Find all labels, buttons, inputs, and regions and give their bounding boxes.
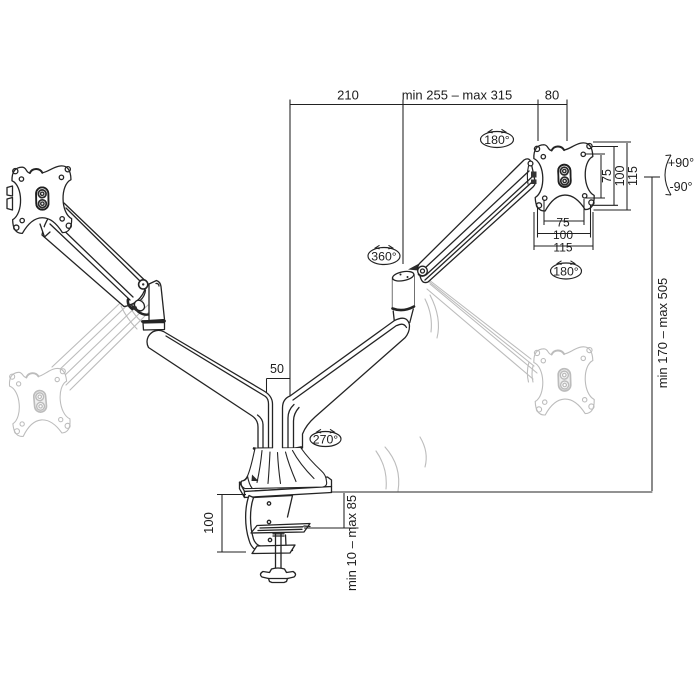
right overall dim [651,177,653,491]
ghost foot curls [420,437,426,467]
screw rod [276,533,282,569]
spring boss [132,298,146,312]
svg-text:80: 80 [545,88,559,103]
right hinge [418,266,428,276]
oval arrow ticks [488,129,505,133]
VESA vertical dims [600,155,602,198]
right hinge wedge [408,263,423,272]
svg-text:115: 115 [626,166,640,186]
svg-text:210: 210 [337,88,359,103]
lower jaw [252,545,295,554]
left plate tilt wedge [40,224,50,237]
left elbow housing [149,281,165,321]
svg-text:100: 100 [613,166,627,187]
extension line x=403 [402,100,404,264]
dim 100 left [217,495,246,553]
svg-text:min 10 – max 85: min 10 – max 85 [344,495,359,591]
ghost left arm [52,290,134,367]
svg-text:115: 115 [553,240,572,254]
left spring arm band [42,203,146,307]
dim min10-max85 [304,493,359,528]
VESA horizontal dims [544,199,584,225]
svg-text:+90°: +90° [668,156,694,170]
svg-text:50: 50 [270,362,284,376]
desk line [331,491,652,493]
foot collar [254,448,301,451]
right lower slab + tube [283,318,410,448]
ghost right plate [533,347,594,416]
svg-text:75: 75 [600,169,614,183]
svg-text:180°: 180° [484,133,510,147]
ghost right arm [424,276,531,359]
tilt arc [665,155,671,195]
svg-text:360°: 360° [371,249,397,263]
left plate side clip [7,186,13,210]
right VESA plate [533,143,594,212]
left elbow collar [143,320,165,323]
right spring arm band [418,159,536,283]
svg-text:-90°: -90° [669,180,692,194]
wing knob [260,568,295,583]
ghost right arm end bracket [527,362,529,382]
rotation ovals [310,132,582,447]
svg-text:270°: 270° [313,432,339,446]
clamp shelf (upper jaw) [251,524,310,534]
left hinge [139,280,148,289]
dim 50 [267,379,291,398]
foot dark wedge [252,475,259,482]
svg-text:min 170 – max 505: min 170 – max 505 [655,278,670,389]
right plate keyhole dark [558,164,571,187]
left elbow neck [143,323,165,331]
left VESA plate [12,166,72,234]
svg-text:100: 100 [201,512,216,534]
svg-text:min 255 – max 315: min 255 – max 315 [402,88,513,103]
left lower slab + tube [147,330,272,448]
svg-text:180°: 180° [553,264,579,278]
dark cap arcs on band [128,300,133,310]
right plate hinge details [527,166,528,184]
top dimension line [290,104,567,106]
left plate keyhole dark [36,187,49,210]
base slab [240,477,332,492]
ghost left plate [8,368,71,437]
foot [241,448,327,489]
clamp bracket [246,496,293,552]
right cylinder [393,275,415,309]
extension line x=290 [289,100,291,398]
